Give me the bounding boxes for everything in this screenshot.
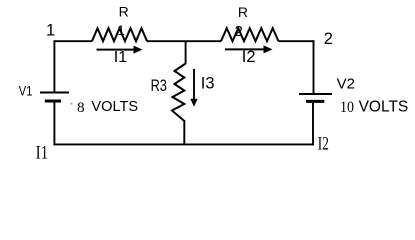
wire R3 bottom lead [183, 120, 185, 145]
wire left vertical lower [53, 101, 55, 145]
wire top-right horizontal [279, 40, 315, 42]
svg-text:VOLTS: VOLTS [91, 99, 138, 115]
wire right vertical lower [312, 101, 314, 145]
wire top-left horizontal [54, 40, 92, 42]
battery V2 short plate [306, 100, 324, 103]
wire left vertical upper [53, 40, 55, 92]
wire middle junction vertical [185, 41, 187, 64]
current arrow I3 [193, 69, 195, 100]
wire right vertical upper [313, 40, 315, 94]
svg-text:VOLTS: VOLTS [359, 99, 409, 116]
svg-text:R: R [119, 4, 129, 20]
current arrow I1 [97, 49, 134, 51]
resistor R3 zigzag [172, 64, 186, 122]
wire bottom horizontal [54, 143, 314, 145]
svg-text:I3: I3 [201, 75, 215, 93]
resistor R1 zigzag [92, 28, 147, 41]
svg-text:10: 10 [340, 99, 354, 116]
stray speck [71, 103, 73, 105]
battery V1 long plate [40, 92, 69, 94]
svg-text:I1: I1 [114, 49, 127, 66]
current arrow I2 [225, 48, 264, 50]
battery V2 long plate [299, 93, 332, 95]
svg-text:I1: I1 [36, 143, 49, 164]
svg-text:V2: V2 [337, 75, 355, 92]
svg-text:V1: V1 [19, 83, 33, 98]
svg-text:1: 1 [117, 23, 125, 38]
svg-text:2: 2 [324, 30, 333, 48]
svg-text:2: 2 [235, 23, 243, 40]
battery V1 short plate [45, 100, 61, 103]
svg-text:I2: I2 [242, 48, 256, 66]
svg-text:R3: R3 [151, 77, 167, 95]
wire top-middle horizontal [147, 40, 221, 42]
svg-text:I2: I2 [318, 134, 329, 155]
svg-text:8: 8 [77, 99, 85, 116]
svg-text:1: 1 [46, 21, 55, 39]
svg-text:R: R [238, 4, 248, 20]
resistor R2 zigzag [221, 28, 279, 41]
